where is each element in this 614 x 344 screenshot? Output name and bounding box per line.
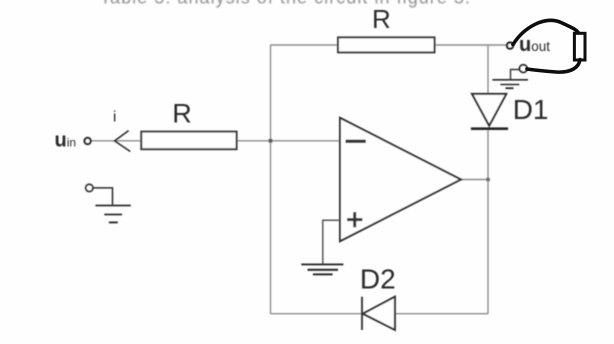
wire: thick lead u_out to load top xyxy=(513,20,580,44)
wire: input wire from u_in to inverting input xyxy=(91,140,340,142)
node: feedback junction xyxy=(269,139,273,143)
resistor R (feedback) xyxy=(338,37,435,52)
svg-text:uout: uout xyxy=(519,34,550,56)
svg-text:D2: D2 xyxy=(360,264,396,295)
node: output junction xyxy=(486,178,489,181)
diode D1 xyxy=(471,94,508,129)
terminal u_in xyxy=(85,138,91,144)
svg-text:Table 3: analysis of the circu: Table 3: analysis of the circuit in figu… xyxy=(100,0,470,7)
wire: probe to ground xyxy=(511,70,520,80)
wire: thick lead load bottom to probe xyxy=(527,60,580,73)
resistor R (input) xyxy=(141,132,236,150)
op-amp non-inverting input (plus) xyxy=(347,212,362,227)
diode D2 xyxy=(362,297,395,330)
load resistor (hand drawn) xyxy=(513,20,585,72)
svg-text:R: R xyxy=(172,99,192,129)
wire: top feedback wire xyxy=(271,44,507,46)
terminal u_out xyxy=(507,43,513,49)
svg-text:uin: uin xyxy=(55,130,77,152)
wire: non-inverting input to ground xyxy=(323,220,340,263)
probe terminal circle (u_out ground probe) xyxy=(520,65,528,73)
op-amp U1 xyxy=(340,118,461,241)
caption text (cropped at top edge) xyxy=(100,0,470,7)
wire: bottom wire to D2 xyxy=(271,313,489,315)
svg-text:R: R xyxy=(372,4,391,34)
ground terminal (left, below u_in) xyxy=(86,184,131,222)
current arrow i xyxy=(115,131,131,152)
ground (u_out probe) xyxy=(492,80,528,88)
ground (op-amp non-inverting input) xyxy=(301,264,343,274)
wire: op-amp output wire xyxy=(460,179,488,181)
wire: left feedback vertical wire xyxy=(270,45,272,314)
load resistor body xyxy=(574,33,585,60)
svg-text:i: i xyxy=(113,109,116,126)
op-amp inverting input (minus) xyxy=(346,140,366,143)
svg-text:D1: D1 xyxy=(513,94,549,125)
wire: right vertical wire (u_out / D1 / output) xyxy=(487,45,489,93)
